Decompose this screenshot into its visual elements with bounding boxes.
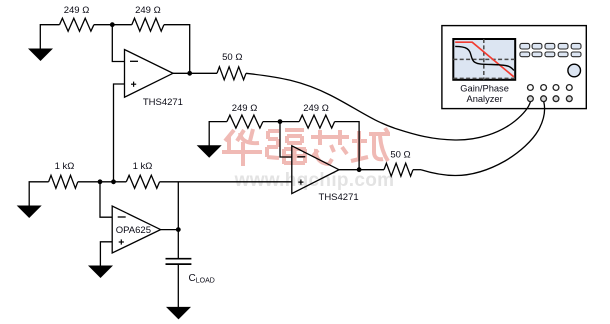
resistor R5 50ohm [217, 67, 246, 80]
hua [222, 129, 262, 166]
screen gain trace (red) [455, 42, 514, 77]
wire noninverting input U1 down to rail [114, 84, 125, 182]
node C dot [98, 179, 103, 184]
wire ground to R7 [29, 182, 48, 206]
cable from U1 output to analyzer input 1 [246, 73, 530, 140]
resistor R2 249ohm [132, 18, 164, 31]
wire R2 to feedback corner [164, 25, 190, 74]
wire node C to inverting input U3 [100, 182, 112, 217]
svg-text:CLOAD: CLOAD [189, 273, 215, 285]
svg-text:249 Ω: 249 Ω [64, 5, 90, 16]
svg-text:THS4271: THS4271 [319, 192, 359, 203]
watermark hanzi strokes [222, 128, 390, 166]
screen graticule dashed lines [453, 39, 515, 80]
capacitor CLOAD [166, 259, 192, 264]
svg-text:Analyzer: Analyzer [467, 94, 503, 104]
wire R7 to R8 (nodes C,D) [78, 181, 127, 183]
connector row top [528, 85, 573, 91]
resistor R6 50ohm [384, 163, 413, 176]
analyzer screen [453, 39, 515, 80]
wire node A to inverting input U1 [112, 25, 124, 62]
resistor R7 1k [49, 175, 78, 188]
svg-text:50 Ω: 50 Ω [390, 150, 410, 161]
svg-text:249 Ω: 249 Ω [303, 103, 329, 114]
resistor R1 249ohm [60, 18, 94, 31]
resistor R8 1k [126, 175, 159, 188]
node E dot (U3 output) [176, 227, 181, 232]
svg-text:Gain/Phase: Gain/Phase [460, 84, 509, 94]
svg-text:THS4271: THS4271 [143, 97, 183, 108]
svg-text:249 Ω: 249 Ω [135, 5, 161, 16]
knob [568, 64, 581, 77]
node B dot [278, 119, 283, 124]
wire input to R3 [209, 122, 227, 146]
cable from U2 output to analyzer input 2 [421, 102, 545, 176]
node U2 output dot [357, 167, 362, 172]
button row 2 [520, 52, 581, 57]
screen phase trace (black) [455, 46, 514, 70]
svg-text:50 Ω: 50 Ω [222, 52, 242, 63]
op-amp U2 THS4271 [292, 146, 339, 194]
svg-text:www.hqchip.com: www.hqchip.com [234, 170, 395, 191]
wire U3 output to node E [161, 229, 179, 231]
xin [311, 130, 349, 164]
svg-text:1 kΩ: 1 kΩ [133, 161, 153, 172]
wire junction down to Cload / U3 output node [177, 182, 179, 259]
ground G3 [17, 206, 42, 219]
node A dot [110, 22, 115, 27]
ground G1 [28, 49, 53, 62]
resistor R4 249ohm [299, 115, 334, 128]
wire R6 to cable [413, 169, 421, 171]
main rail to U2 noninverting input [160, 181, 292, 183]
button row 1 [520, 43, 581, 49]
wire node B to inverting input U2 [280, 122, 292, 157]
wire noninverting input U3 to ground G4 [100, 242, 112, 266]
wire R1 to node A [94, 24, 132, 26]
svg-text:OPA625: OPA625 [116, 225, 151, 236]
node U1 output dot [187, 71, 192, 76]
svg-text:249 Ω: 249 Ω [232, 103, 258, 114]
svg-text:1 kΩ: 1 kΩ [55, 161, 75, 172]
qiang [267, 130, 306, 164]
ground G4 [88, 266, 113, 279]
cheng [351, 128, 390, 161]
analyzer box [442, 26, 586, 109]
wire R3 to node B [263, 121, 299, 123]
resistor R3 249ohm [227, 115, 263, 128]
wire R4 to feedback corner [335, 122, 360, 170]
wire capacitor to ground G5 [177, 264, 179, 307]
connector row bottom [528, 96, 573, 102]
op-amp U3 OPA625 [112, 206, 160, 253]
op-amp U1 THS4271 [125, 50, 174, 98]
ground G2 [197, 145, 222, 158]
node D dot [111, 179, 116, 184]
wire U2 output to R6 [339, 169, 384, 171]
wire U1 output to R5 [173, 72, 217, 74]
ground G5 [166, 307, 191, 320]
wire input to R1 [40, 25, 59, 49]
